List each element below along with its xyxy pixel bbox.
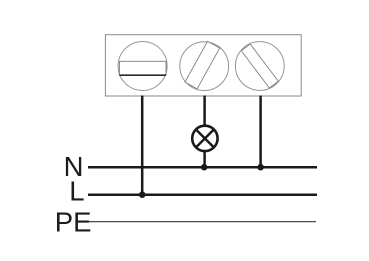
L rail [88,193,317,196]
wire from terminal 3 down to N [259,96,262,168]
lamp symbol [192,126,217,151]
screw terminal 1 [118,42,167,91]
wire from terminal 2 down to lamp [203,96,206,127]
wire from lamp down to N [203,151,206,167]
junction dot terminal1/L [139,191,146,198]
wire from terminal 1 down to L [141,96,144,195]
svg-text:L: L [69,176,84,207]
terminal box outline [105,35,301,96]
screw terminal 2 circle [180,42,229,91]
screw terminal 3 [241,44,278,88]
svg-text:PE: PE [55,207,92,238]
PE rail [88,221,317,223]
screw terminal 3 circle [235,42,284,91]
N rail [88,166,317,169]
junction dot lamp/N [201,164,208,171]
screw terminal 2 [185,41,220,88]
junction dot terminal3/N [257,164,264,171]
